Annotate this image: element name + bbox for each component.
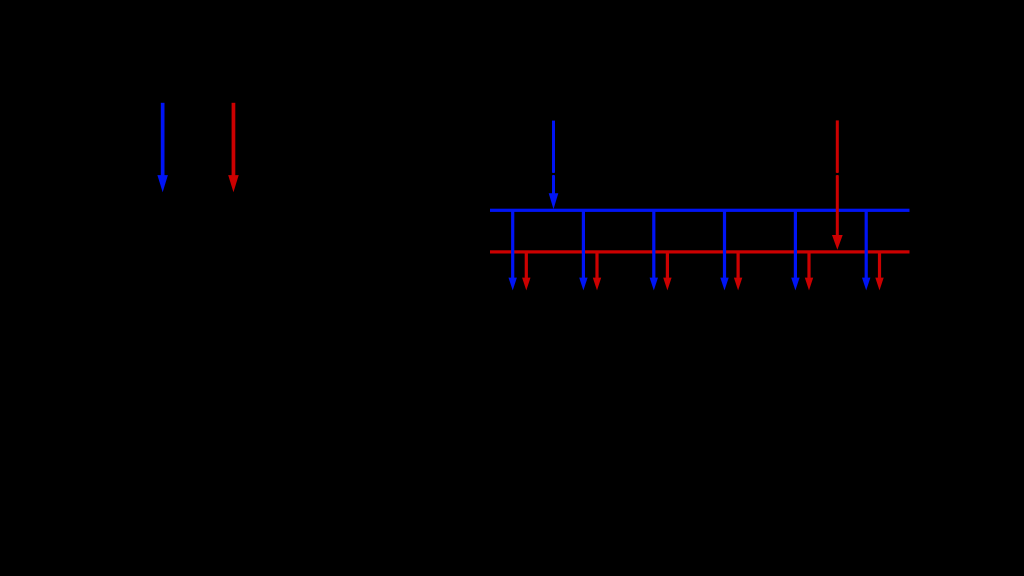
red service drop 1: [522, 252, 530, 291]
red service drop 5: [805, 252, 813, 291]
blue supply bus line: [490, 209, 910, 212]
red return bus line: [490, 250, 910, 253]
blue service drop 5: [791, 210, 799, 290]
black roof-apex pinch over blue feed arrow: [549, 172, 559, 176]
red feed arrow into return bus: [832, 120, 843, 249]
left red return arrow: [228, 103, 239, 192]
blue service drop 3: [650, 210, 658, 290]
blue feed arrow into supply bus: [549, 121, 559, 210]
left blue supply arrow: [157, 103, 168, 192]
blue service drop 1: [509, 210, 517, 290]
red service drop 2: [593, 252, 601, 291]
red service drop 3: [663, 252, 671, 291]
blue service drop 2: [579, 210, 587, 290]
red service drop 6: [875, 252, 883, 291]
red service drop 4: [734, 252, 742, 291]
black roof-apex pinch over red feed arrow: [832, 172, 842, 176]
blue service drop 6: [862, 210, 870, 290]
blue service drop 4: [720, 210, 728, 290]
